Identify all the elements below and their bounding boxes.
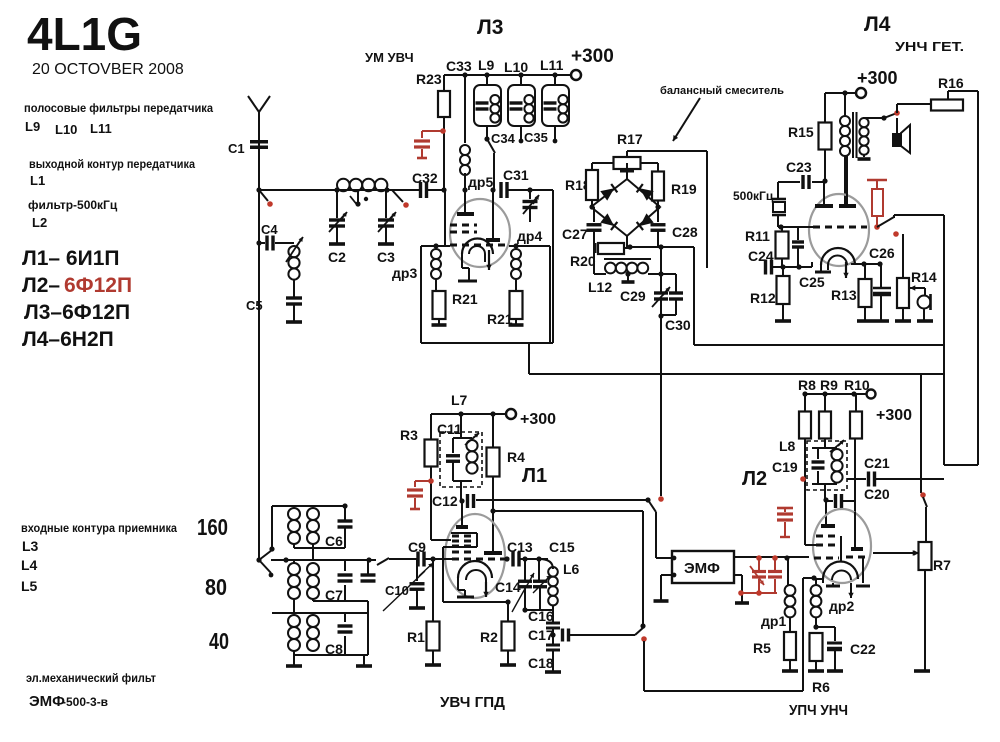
svg-text:R1: R1 [407,629,425,645]
svg-text:C33: C33 [446,58,472,74]
svg-text:C18: C18 [528,655,554,671]
svg-text:выходной контур передатчика: выходной контур передатчика [29,157,195,171]
svg-text:R17: R17 [617,131,643,147]
svg-text:C1: C1 [228,141,245,156]
svg-text:L2: L2 [32,215,47,230]
svg-text:УПЧ УНЧ: УПЧ УНЧ [789,702,848,719]
svg-text:L10: L10 [55,122,77,137]
svg-text:C27: C27 [562,226,588,242]
svg-text:R16: R16 [938,75,964,91]
svg-text:C26: C26 [869,245,895,261]
svg-text:фильтр-500кГц: фильтр-500кГц [28,198,118,212]
svg-text:4L1G: 4L1G [27,8,142,60]
svg-text:C5: C5 [246,298,263,313]
svg-text:C15: C15 [549,539,575,555]
svg-text:C21: C21 [864,455,890,471]
svg-text:C8: C8 [325,641,343,657]
svg-text:C35: C35 [524,130,548,145]
svg-text:500кГц: 500кГц [733,189,774,203]
svg-text:C23: C23 [786,159,812,175]
svg-text:R14: R14 [911,269,937,285]
svg-text:УМ УВЧ: УМ УВЧ [365,50,414,65]
svg-text:R23: R23 [416,71,442,87]
svg-text:C31: C31 [503,167,529,183]
svg-text:C28: C28 [672,224,698,240]
svg-text:+300: +300 [520,411,556,428]
svg-text:L12: L12 [588,279,612,295]
svg-text:R10: R10 [844,377,870,393]
svg-text:L1: L1 [30,173,45,188]
svg-text:L9: L9 [25,119,40,134]
svg-text:C25: C25 [799,274,825,290]
svg-text:160: 160 [197,514,228,540]
svg-text:др4: др4 [517,228,542,244]
svg-text:C2: C2 [328,249,346,265]
svg-text:Л1: Л1 [522,465,547,487]
svg-text:L10: L10 [504,59,528,75]
svg-text:6Ф12П: 6Ф12П [64,274,132,297]
svg-text:R4: R4 [507,449,525,465]
svg-text:R5: R5 [753,640,771,656]
svg-text:C19: C19 [772,459,798,475]
svg-text:R9: R9 [820,377,838,393]
svg-text:C34: C34 [491,131,516,146]
svg-text:R8: R8 [798,377,816,393]
svg-text:R21: R21 [452,291,478,307]
svg-text:80: 80 [205,574,227,600]
svg-text:L6: L6 [563,561,580,577]
svg-text:входные контура приемника: входные контура приемника [21,521,177,535]
svg-text:C14: C14 [495,579,521,595]
svg-text:R7: R7 [933,557,951,573]
svg-text:др1: др1 [761,613,786,629]
svg-text:Л1– 6И1П: Л1– 6И1П [22,247,119,270]
svg-text:20 OCTOVBER 2008: 20 OCTOVBER 2008 [32,61,184,78]
svg-text:R15: R15 [788,124,814,140]
svg-text:C22: C22 [850,641,876,657]
svg-text:др3: др3 [392,265,417,281]
svg-text:-500-3-в: -500-3-в [62,695,108,709]
svg-text:Л3–6Ф12П: Л3–6Ф12П [24,301,130,324]
svg-text:C3: C3 [377,249,395,265]
svg-text:L4: L4 [21,557,38,573]
svg-text:L11: L11 [90,121,112,136]
svg-text:УНЧ ГЕТ.: УНЧ ГЕТ. [895,39,964,54]
svg-text:C32: C32 [412,170,438,186]
svg-text:ЭМФ: ЭМФ [684,560,720,577]
svg-text:полосовые фильтры передатчика: полосовые фильтры передатчика [24,101,213,115]
svg-text:балансный смеситель: балансный смеситель [660,85,784,97]
svg-text:40: 40 [209,628,229,654]
svg-text:C17: C17 [528,627,554,643]
svg-text:Л4–6Н2П: Л4–6Н2П [22,328,114,351]
svg-text:+300: +300 [571,46,614,67]
svg-text:L8: L8 [779,438,796,454]
svg-text:+300: +300 [876,407,912,424]
svg-text:L3: L3 [22,538,39,554]
svg-text:L5: L5 [21,578,38,594]
svg-text:L7: L7 [451,392,468,408]
svg-text:Л4: Л4 [864,13,891,36]
svg-text:R20: R20 [570,253,596,269]
svg-text:УВЧ ГПД: УВЧ ГПД [440,694,505,711]
svg-text:R2: R2 [480,629,498,645]
svg-text:C12: C12 [432,493,458,509]
svg-text:C30: C30 [665,317,691,333]
svg-text:Л3: Л3 [477,16,503,39]
svg-text:Л2–: Л2– [22,274,60,297]
svg-text:C6: C6 [325,533,343,549]
svg-text:др5: др5 [468,174,493,190]
svg-text:др2: др2 [829,598,854,614]
svg-text:эл.механический фильт: эл.механический фильт [26,671,156,685]
svg-text:R13: R13 [831,287,857,303]
svg-text:C4: C4 [261,222,278,237]
svg-text:+300: +300 [857,68,898,88]
svg-text:C29: C29 [620,288,646,304]
svg-text:C7: C7 [325,587,343,603]
svg-text:C20: C20 [864,486,890,502]
svg-text:R21: R21 [487,311,513,327]
svg-text:R19: R19 [671,181,697,197]
svg-text:R12: R12 [750,290,776,306]
svg-text:ЭМФ: ЭМФ [29,693,65,710]
svg-text:R3: R3 [400,427,418,443]
svg-text:Л2: Л2 [742,468,767,490]
svg-text:L11: L11 [540,57,564,73]
svg-text:R6: R6 [812,679,830,695]
svg-text:L9: L9 [478,57,495,73]
svg-text:R11: R11 [745,228,770,244]
